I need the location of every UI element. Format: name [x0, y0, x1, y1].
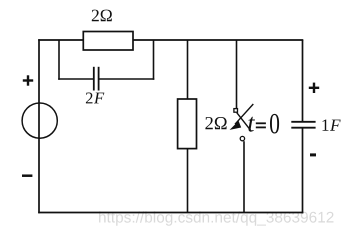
label 1F (C2)	[323, 120, 341, 131]
plus polarity (C2)	[309, 83, 319, 93]
switch S motion arrow	[230, 104, 254, 130]
wire bottom	[38, 212, 303, 214]
wire middle branch upper	[187, 40, 189, 100]
wire middle branch lower	[187, 149, 189, 213]
wire cap-branch right horizontal	[99, 78, 155, 80]
resistor R2	[178, 99, 197, 149]
capacitor C2	[291, 122, 315, 128]
switch S blade	[237, 113, 251, 131]
label 2Ω (R1)	[92, 10, 112, 22]
wire switch lower lead	[243, 141, 245, 212]
wire top	[38, 39, 303, 41]
resistor R1	[83, 32, 133, 51]
minus polarity (source)	[22, 174, 32, 177]
label 2Ω (R2)	[205, 117, 226, 129]
label t=0	[248, 114, 279, 134]
wire cap-branch left horizontal	[58, 78, 94, 80]
wire cap-branch right riser	[153, 40, 155, 80]
label 2F (C1)	[86, 93, 104, 104]
wire cap-branch left drop	[58, 40, 60, 80]
wire right lower	[302, 128, 304, 214]
wire switch upper lead	[236, 40, 238, 108]
switch S lower contact	[240, 136, 244, 140]
wire left	[38, 39, 40, 213]
watermark	[99, 211, 333, 225]
switch S upper contact	[234, 109, 238, 113]
wire right upper	[302, 40, 304, 122]
voltage source V1	[22, 103, 57, 138]
capacitor C1	[94, 67, 99, 91]
minus polarity (C2)	[310, 153, 316, 156]
plus polarity (source)	[23, 75, 33, 85]
